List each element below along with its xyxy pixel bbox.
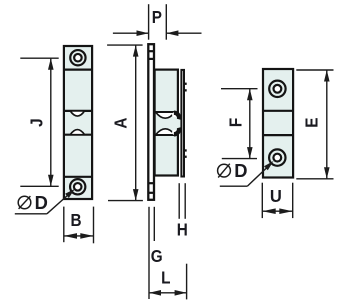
svg-text:B: B	[70, 210, 81, 230]
svg-text:E: E	[301, 118, 321, 128]
svg-text:P: P	[152, 7, 162, 27]
svg-text:G: G	[151, 246, 163, 266]
svg-text:J: J	[26, 118, 46, 127]
svg-text:D: D	[35, 193, 48, 213]
svg-text:U: U	[270, 186, 282, 207]
svg-text:F: F	[225, 118, 245, 127]
svg-text:L: L	[161, 267, 170, 287]
svg-text:H: H	[177, 219, 188, 239]
svg-text:D: D	[234, 161, 247, 181]
svg-text:A: A	[110, 118, 130, 129]
